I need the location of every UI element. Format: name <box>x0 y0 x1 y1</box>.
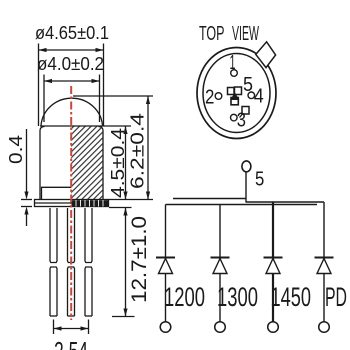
pin 2 lead <box>68 208 75 263</box>
svg-text:6.2±0.4: 6.2±0.4 <box>127 113 148 189</box>
4.5 dimension line <box>125 126 127 200</box>
extension lines ø4.65 <box>38 44 40 127</box>
pin 4 pad <box>248 92 255 99</box>
pin 1 pad <box>231 70 238 77</box>
svg-text:5: 5 <box>255 168 264 191</box>
flange bottom extension <box>109 207 132 209</box>
label PD <box>325 282 347 312</box>
pin 5 label <box>243 73 253 96</box>
svg-text:4: 4 <box>254 85 264 108</box>
TOP VIEW label <box>199 22 259 45</box>
bus mid segment <box>246 201 324 203</box>
outer ring <box>197 48 276 139</box>
red centerline <box>70 86 72 320</box>
svg-text:2.54: 2.54 <box>54 337 88 350</box>
pin 3 label <box>237 108 246 131</box>
6.2 dimension line <box>147 96 149 200</box>
inner ring <box>203 54 270 133</box>
label 1450 <box>271 282 312 312</box>
dimension line ø4.0 <box>44 80 100 82</box>
12.7 dimension line <box>125 208 127 317</box>
label 1300 <box>217 282 258 312</box>
svg-text:1200: 1200 <box>164 282 205 312</box>
svg-text:0.4: 0.4 <box>5 135 26 164</box>
svg-text:4.5±0.4: 4.5±0.4 <box>107 128 128 198</box>
12.7 label <box>128 216 151 303</box>
pin 4 label <box>254 85 264 108</box>
4.5 label <box>107 128 128 198</box>
terminal 5 label <box>255 168 264 191</box>
svg-text:2: 2 <box>205 85 214 108</box>
die square left <box>228 88 235 95</box>
dimension text ø4.0±0.2 <box>37 53 104 74</box>
terminal 5 circle <box>242 161 251 172</box>
2.54 dimension <box>53 320 55 335</box>
terminal circle D1 <box>160 322 171 333</box>
LED body <box>40 126 103 200</box>
svg-text:ø4.65±0.1: ø4.65±0.1 <box>35 22 109 43</box>
svg-text:VIEW: VIEW <box>232 22 259 45</box>
bus upper segment <box>173 198 246 200</box>
diode D4 PD <box>315 258 334 274</box>
wire node5 down <box>245 172 247 203</box>
dimension text ø4.65±0.1 <box>35 22 109 43</box>
wire diode 4 <box>323 202 325 322</box>
svg-text:1300: 1300 <box>217 282 258 312</box>
die square right <box>235 87 242 95</box>
pin 2 label <box>205 85 214 108</box>
svg-text:12.7±1.0: 12.7±1.0 <box>128 216 151 303</box>
svg-text:PD: PD <box>325 282 347 312</box>
dome top extension <box>73 95 153 97</box>
wire diode 3 <box>272 202 274 322</box>
pin 3 pad <box>231 114 238 121</box>
svg-text:1450: 1450 <box>271 282 312 312</box>
bus lower segment <box>166 204 318 206</box>
flange top extension <box>109 199 154 201</box>
pin 3 lead <box>85 208 92 263</box>
body top extension <box>103 125 131 127</box>
0.4 dimension <box>26 129 28 192</box>
hatched half of body <box>71 127 103 200</box>
LED dome <box>41 98 103 126</box>
diode D1 1200 <box>156 258 175 274</box>
internal cup <box>42 187 72 199</box>
pin tip extension <box>112 316 135 318</box>
terminal circle D4 <box>319 322 330 333</box>
svg-text:ø4.0±0.2: ø4.0±0.2 <box>37 53 104 74</box>
2.54 label <box>54 337 88 350</box>
label 1200 <box>164 282 205 312</box>
diode D2 1300 <box>211 258 230 274</box>
die square near pin3 <box>242 107 249 115</box>
terminal circle D3 <box>268 322 279 333</box>
flange <box>35 200 109 207</box>
pin 1 label <box>230 51 236 74</box>
diode D3 1450 <box>264 258 283 274</box>
0.4 label <box>5 135 26 164</box>
dimension line ø4.65 <box>39 49 104 51</box>
pin 1 lead <box>50 208 57 263</box>
wire diode 2 <box>219 205 221 322</box>
terminal circle D2 <box>215 322 226 333</box>
pin 2 pad <box>215 93 222 100</box>
flange hatched half <box>72 200 109 206</box>
6.2 label <box>127 113 148 189</box>
die square lower <box>231 98 238 105</box>
center arrow chip <box>230 92 239 100</box>
wire diode 1 <box>165 205 167 322</box>
svg-text:TOP: TOP <box>199 22 225 45</box>
extension lines ø4.0 <box>43 75 45 123</box>
tab <box>256 42 276 68</box>
bond wire <box>240 114 243 118</box>
